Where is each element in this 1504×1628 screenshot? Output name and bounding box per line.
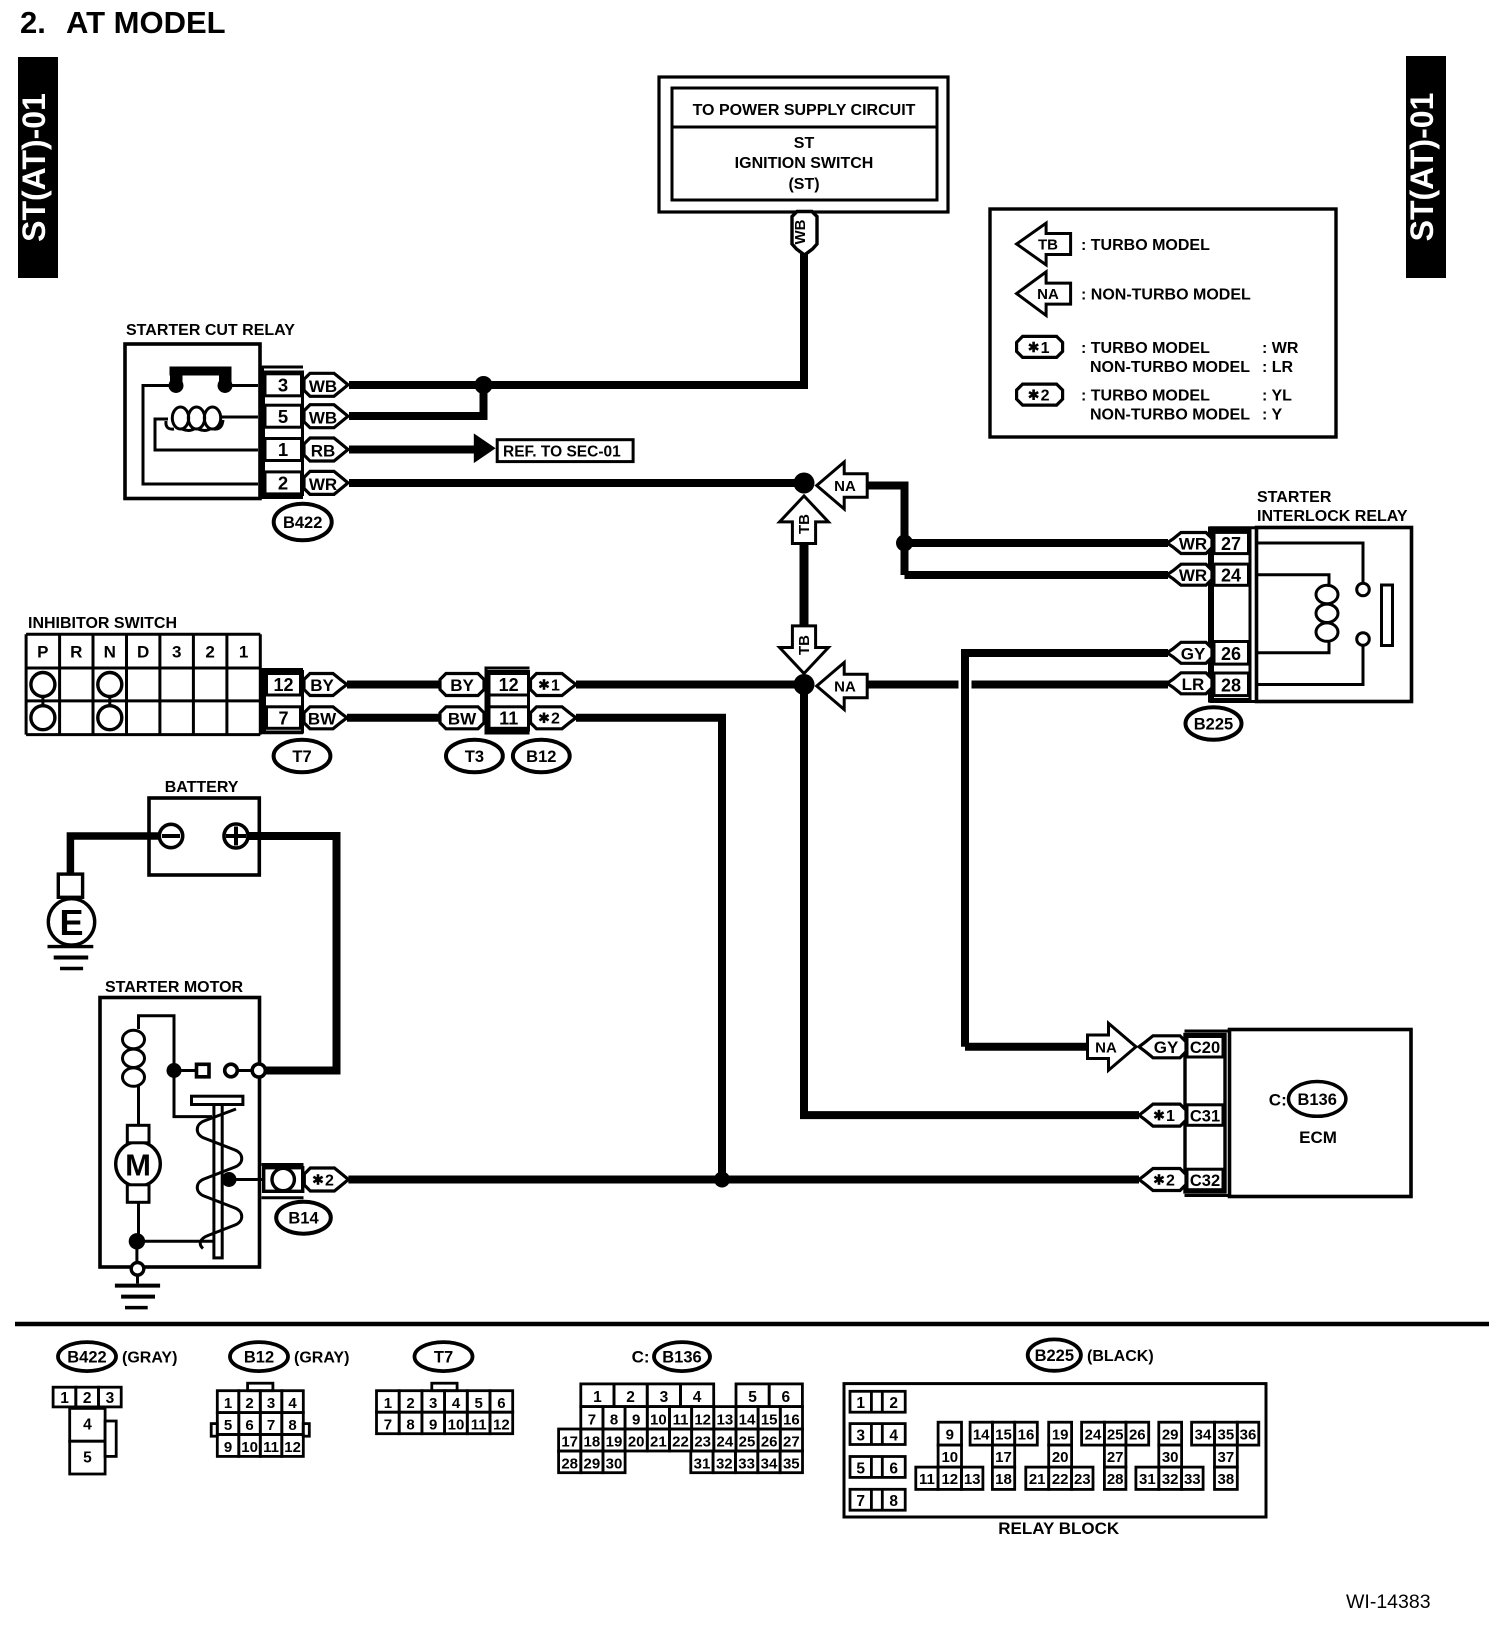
svg-text:28: 28 — [1221, 676, 1241, 696]
svg-text:2: 2 — [889, 1395, 898, 1412]
connector B12 (GRAY) label — [230, 1342, 349, 1371]
svg-text:29: 29 — [1162, 1427, 1179, 1444]
connector B12 pinout — [211, 1383, 309, 1456]
svg-text:B12: B12 — [526, 748, 556, 766]
svg-text:12: 12 — [284, 1439, 301, 1456]
svg-text:2: 2 — [278, 473, 288, 494]
svg-text:35: 35 — [783, 1455, 800, 1472]
label STARTER CUT RELAY — [126, 322, 295, 339]
svg-text:LR: LR — [1182, 675, 1205, 694]
svg-text:2: 2 — [245, 1395, 253, 1412]
svg-text:(GRAY): (GRAY) — [122, 1350, 177, 1367]
wire BY/*1 to junction B — [576, 681, 804, 689]
svg-text:B225: B225 — [1035, 1347, 1074, 1365]
terminal GY at C20 — [1139, 1036, 1186, 1058]
svg-text:23: 23 — [694, 1434, 711, 1451]
interlock pin column — [1213, 530, 1251, 700]
svg-text:26: 26 — [1129, 1427, 1146, 1444]
interlock pin bracket — [1210, 527, 1258, 703]
legend symbol *2 — [1017, 384, 1063, 405]
svg-text:GY: GY — [1154, 1038, 1179, 1057]
interlock contact points — [1357, 583, 1370, 645]
svg-text:T3: T3 — [465, 748, 484, 766]
svg-text:33: 33 — [1184, 1471, 1201, 1488]
starter motor ground symbol — [115, 1275, 160, 1308]
junction motor ground — [129, 1233, 145, 1249]
junction A (WR/TB/NA) — [794, 473, 815, 494]
svg-text:12: 12 — [273, 675, 293, 695]
terminal *1 at C31 — [1139, 1104, 1186, 1126]
svg-text:38: 38 — [1218, 1471, 1235, 1488]
svg-text:10: 10 — [650, 1411, 667, 1428]
svg-text:3: 3 — [172, 643, 181, 662]
svg-text:BY: BY — [450, 676, 474, 695]
svg-text:M: M — [125, 1147, 151, 1182]
svg-text:11: 11 — [263, 1439, 279, 1456]
relay block cavity group 34-38 — [1192, 1422, 1259, 1489]
svg-text:4: 4 — [693, 1389, 702, 1406]
svg-text:9: 9 — [429, 1417, 437, 1434]
svg-text:21: 21 — [650, 1434, 667, 1451]
svg-text:27: 27 — [1221, 534, 1241, 554]
svg-text:ST(AT)-01: ST(AT)-01 — [1404, 93, 1440, 242]
wire BW/*2 down to ECM row — [576, 718, 722, 1180]
svg-text:8: 8 — [288, 1417, 296, 1434]
ECM body — [1230, 1030, 1412, 1197]
svg-text:4: 4 — [889, 1427, 898, 1444]
svg-text:18: 18 — [584, 1434, 601, 1451]
B14 pin bracket — [262, 1165, 304, 1198]
terminal BY pin 12 — [304, 674, 347, 696]
wire BY inhibitor to T3 — [347, 681, 441, 689]
svg-text:STARTER CUT RELAY: STARTER CUT RELAY — [126, 322, 295, 339]
svg-text:5: 5 — [748, 1389, 757, 1406]
svg-text:23: 23 — [1074, 1471, 1091, 1488]
pin C20 of B136 — [1187, 1037, 1223, 1058]
wire from NA arrow A to interlock relay branch — [866, 486, 905, 576]
svg-text:B422: B422 — [283, 514, 322, 532]
svg-text:2.: 2. — [20, 5, 46, 40]
battery plus terminal — [224, 824, 248, 848]
svg-text:22: 22 — [672, 1434, 689, 1451]
inhibitor switch contact circles N — [98, 673, 122, 730]
svg-text:INHIBITOR SWITCH: INHIBITOR SWITCH — [28, 615, 177, 632]
svg-text:17: 17 — [995, 1449, 1012, 1466]
starter motor body — [100, 998, 260, 1268]
pin C32 of B136 — [1187, 1169, 1223, 1190]
svg-text:32: 32 — [716, 1455, 733, 1472]
svg-text:RB: RB — [311, 442, 336, 461]
svg-text:27: 27 — [1107, 1449, 1124, 1466]
arrow NA (non-turbo) pointing left at junction B — [817, 663, 868, 710]
wire NA-B to interlock pin 28 (LR) — [866, 681, 1168, 689]
label BATTERY — [165, 779, 239, 796]
connector B422 (GRAY) label — [58, 1342, 177, 1371]
svg-text:T7: T7 — [292, 748, 311, 766]
svg-text:26: 26 — [761, 1434, 778, 1451]
wire GY to ECM NA arrow — [965, 1043, 1088, 1051]
svg-text:14: 14 — [973, 1427, 990, 1444]
svg-text:BW: BW — [308, 709, 337, 728]
svg-text:1: 1 — [593, 1389, 602, 1406]
relay block paired cavities 1-8 — [850, 1391, 905, 1510]
svg-text:IGNITION SWITCH: IGNITION SWITCH — [735, 155, 874, 172]
svg-text:TB: TB — [1038, 237, 1058, 254]
svg-text:10: 10 — [941, 1449, 958, 1466]
starter motor ground stud — [131, 1263, 144, 1276]
svg-text:: TURBO MODEL: : TURBO MODEL — [1081, 237, 1210, 254]
pin 12 of T7 — [267, 674, 301, 696]
svg-text:3: 3 — [106, 1390, 115, 1407]
interlock relay body — [1257, 528, 1412, 702]
svg-text:TO POWER SUPPLY CIRCUIT: TO POWER SUPPLY CIRCUIT — [693, 102, 916, 119]
starter motor brush lower — [127, 1185, 149, 1203]
wire motor to ground — [137, 1202, 213, 1261]
svg-text:B136: B136 — [662, 1349, 701, 1367]
wire *2 from B14 to junction C — [348, 1176, 722, 1184]
starter motor field coil — [123, 1030, 145, 1125]
connector C: B136 label — [632, 1342, 710, 1371]
svg-text:28: 28 — [561, 1455, 578, 1472]
svg-text:6: 6 — [497, 1395, 505, 1412]
relay block cavity group 14-18 — [970, 1422, 1037, 1489]
legend text turbo model — [1081, 237, 1210, 254]
interlock coil — [1316, 585, 1338, 641]
svg-text:16: 16 — [783, 1411, 800, 1428]
svg-text:ECM: ECM — [1299, 1128, 1337, 1147]
wire RB to REF arrow — [349, 446, 476, 454]
svg-text:BATTERY: BATTERY — [165, 779, 239, 796]
svg-text:6: 6 — [781, 1389, 790, 1406]
wire WR to interlock pin 24 — [905, 571, 1169, 579]
junction WR branch to pin 27 — [896, 535, 913, 552]
arrow NA (non-turbo) pointing left at junction A — [817, 462, 868, 509]
svg-text:WB: WB — [309, 408, 337, 427]
pin 24 of B225 — [1214, 564, 1249, 586]
interlock armature bar — [1382, 585, 1393, 646]
svg-text:NON-TURBO MODEL: NON-TURBO MODEL — [1090, 359, 1250, 376]
svg-text:B422: B422 — [67, 1349, 106, 1367]
terminal BW pin 7 — [304, 707, 347, 729]
svg-text:15: 15 — [995, 1427, 1012, 1444]
ref arrow to SEC-01 — [474, 433, 496, 463]
starter motor contact points — [167, 1063, 253, 1078]
svg-text:3: 3 — [429, 1395, 437, 1412]
legend symbol *1 — [1017, 336, 1063, 357]
ground E circle — [48, 899, 94, 945]
svg-text:8: 8 — [610, 1411, 618, 1428]
svg-text:AT MODEL: AT MODEL — [66, 5, 226, 40]
svg-text:19: 19 — [606, 1434, 623, 1451]
svg-text:17: 17 — [561, 1434, 578, 1451]
svg-text:32: 32 — [1162, 1471, 1179, 1488]
svg-text:1: 1 — [60, 1390, 69, 1407]
svg-text:25: 25 — [739, 1434, 756, 1451]
svg-text:P: P — [37, 643, 48, 662]
connector B14 — [276, 1202, 331, 1234]
ref box REF. TO SEC-01 — [497, 440, 633, 462]
inhibitor switch position labels — [37, 643, 248, 662]
terminal WR pin 27 — [1167, 533, 1212, 554]
svg-text:5: 5 — [83, 1449, 92, 1466]
pin 28 of B225 — [1214, 673, 1249, 696]
svg-text:12: 12 — [499, 675, 519, 695]
pin 1 of B422 — [265, 439, 302, 461]
svg-text:WR: WR — [1179, 566, 1207, 585]
connector B225 — [1186, 707, 1242, 740]
starter motor plunger spring — [197, 1109, 242, 1249]
svg-text:5: 5 — [224, 1417, 232, 1434]
svg-text:WR: WR — [309, 475, 337, 494]
svg-text:C20: C20 — [1190, 1039, 1220, 1057]
svg-text:WR: WR — [1179, 535, 1207, 554]
svg-text:T7: T7 — [434, 1349, 453, 1367]
svg-text:E: E — [59, 902, 83, 943]
label RELAY BLOCK — [998, 1519, 1120, 1538]
svg-text:15: 15 — [761, 1411, 778, 1428]
svg-text:14: 14 — [739, 1411, 756, 1428]
svg-text:30: 30 — [606, 1455, 623, 1472]
terminal BW at T3 — [440, 707, 484, 729]
junction C (*2) — [714, 1172, 730, 1188]
svg-text:4: 4 — [83, 1417, 92, 1434]
left page banner ST(AT)-01 — [16, 57, 58, 278]
svg-text:B136: B136 — [1297, 1091, 1336, 1109]
svg-text:2: 2 — [1041, 388, 1050, 405]
terminal WR pin 24 — [1167, 564, 1212, 585]
svg-text:NA: NA — [834, 478, 856, 495]
svg-text:INTERLOCK RELAY: INTERLOCK RELAY — [1257, 508, 1408, 525]
battery body — [149, 798, 259, 875]
ECM pin bracket — [1185, 1031, 1230, 1196]
svg-text:2: 2 — [83, 1390, 92, 1407]
motor M — [116, 1142, 161, 1187]
terminal *2 at B12 — [531, 707, 577, 729]
svg-text:16: 16 — [1018, 1427, 1035, 1444]
ECM pin column — [1185, 1035, 1225, 1193]
svg-text:5: 5 — [475, 1395, 483, 1412]
svg-text:11: 11 — [499, 708, 518, 728]
svg-text:8: 8 — [889, 1493, 898, 1510]
svg-text:13: 13 — [964, 1471, 981, 1488]
svg-text:31: 31 — [694, 1455, 711, 1472]
document number WI-14383 — [1346, 1591, 1431, 1613]
svg-text:N: N — [104, 643, 116, 662]
svg-text:: WR: : WR — [1262, 340, 1299, 357]
svg-text:34: 34 — [1195, 1427, 1212, 1444]
starter motor brush upper — [127, 1125, 149, 1143]
junction B (BY/TB/NA) — [794, 674, 815, 695]
pin 27 of B225 — [1214, 532, 1249, 554]
svg-text:4: 4 — [452, 1395, 461, 1412]
svg-text:1: 1 — [551, 677, 560, 694]
svg-text:7: 7 — [588, 1411, 596, 1428]
svg-text:1: 1 — [1041, 340, 1050, 357]
T3/B12 pin bracket — [486, 667, 530, 735]
svg-text:BW: BW — [448, 709, 477, 728]
starter cut relay pin bracket — [260, 366, 303, 499]
T3/B12 pin column — [489, 672, 529, 731]
svg-text:BY: BY — [310, 676, 334, 695]
legend *1 text — [1081, 340, 1299, 376]
terminal WB (ignition switch feed) — [792, 212, 817, 256]
label STARTER MOTOR — [105, 979, 244, 996]
svg-text:R: R — [70, 643, 82, 662]
wire from junction B down to ECM *1 C31 — [804, 685, 1139, 1116]
ground E lines — [48, 947, 94, 969]
svg-text:18: 18 — [995, 1471, 1012, 1488]
svg-text:27: 27 — [783, 1434, 800, 1451]
terminal *1 at B12 — [531, 674, 577, 696]
relay block cavity group 24-28 — [1082, 1422, 1149, 1489]
svg-text:STARTER MOTOR: STARTER MOTOR — [105, 979, 244, 996]
svg-text:C:: C: — [1269, 1091, 1287, 1110]
svg-text:22: 22 — [1052, 1471, 1069, 1488]
svg-text:7: 7 — [384, 1417, 392, 1434]
label ECM — [1299, 1128, 1337, 1147]
svg-text:ST: ST — [794, 135, 815, 152]
svg-text:28: 28 — [1107, 1471, 1124, 1488]
connector B422 pinout — [53, 1387, 121, 1474]
svg-text:GY: GY — [1181, 644, 1206, 663]
terminal WB pin 5 — [304, 405, 348, 428]
connector T7 pinout — [377, 1383, 513, 1434]
pin 2 of B422 — [265, 472, 302, 494]
wire battery minus to ground E — [70, 836, 161, 873]
starter cut relay pin column — [264, 372, 303, 495]
svg-text:29: 29 — [584, 1455, 601, 1472]
svg-text:3: 3 — [660, 1389, 669, 1406]
svg-text:24: 24 — [717, 1434, 734, 1451]
svg-text:25: 25 — [1107, 1427, 1124, 1444]
relay block cavity group 29-33 — [1136, 1422, 1203, 1489]
relay block cavity group 19-23 — [1026, 1422, 1093, 1489]
wire WR from starter cut relay pin 2 to junction A — [349, 479, 804, 487]
pin 26 of B225 — [1214, 642, 1249, 665]
terminal GY pin 26 — [1167, 642, 1212, 663]
svg-text:NA: NA — [1037, 286, 1059, 303]
svg-text:24: 24 — [1221, 566, 1241, 586]
ground tab — [58, 874, 82, 897]
inhibitor switch contact circles P — [31, 673, 55, 730]
battery minus terminal — [159, 824, 182, 847]
inhibitor switch grid — [26, 634, 260, 734]
connector T7 label — [415, 1342, 473, 1371]
legend arrow TB — [1017, 223, 1071, 265]
label INHIBITOR SWITCH — [28, 615, 177, 632]
svg-text:2: 2 — [325, 1172, 334, 1189]
ECM connector label C: B136 — [1269, 1082, 1346, 1117]
pin 7 of T7 — [267, 707, 301, 729]
svg-text:3: 3 — [856, 1427, 865, 1444]
svg-text:WB: WB — [309, 377, 337, 396]
svg-text:26: 26 — [1221, 644, 1241, 664]
svg-text:C:: C: — [632, 1348, 650, 1367]
svg-text:C32: C32 — [1190, 1172, 1220, 1190]
wire WB branch to starter cut relay pin 5 — [349, 385, 484, 416]
svg-text:30: 30 — [1162, 1449, 1179, 1466]
svg-text:7: 7 — [267, 1417, 275, 1434]
svg-text:31: 31 — [1139, 1471, 1156, 1488]
legend text non-turbo model — [1081, 287, 1251, 304]
svg-text:5: 5 — [278, 406, 288, 427]
junction WB branch — [475, 376, 493, 394]
svg-text:1: 1 — [224, 1395, 232, 1412]
terminal LR pin 28 — [1167, 673, 1212, 694]
wire solenoid to B14 — [229, 1178, 262, 1181]
svg-text:21: 21 — [1029, 1471, 1046, 1488]
starter cut relay contact bridge — [169, 367, 233, 394]
svg-text:2: 2 — [626, 1389, 635, 1406]
inhibitor pin bracket — [260, 669, 303, 734]
B14 ring terminal — [264, 1168, 303, 1192]
svg-text:3: 3 — [278, 375, 288, 396]
svg-text:11: 11 — [471, 1417, 487, 1434]
svg-text:20: 20 — [628, 1434, 645, 1451]
svg-text:(ST): (ST) — [788, 176, 819, 193]
svg-text:2: 2 — [1166, 1172, 1175, 1189]
starter motor plunger — [192, 1096, 243, 1258]
connector T3 — [446, 740, 503, 772]
svg-text:2: 2 — [205, 643, 214, 662]
pin 3 of B422 — [265, 374, 302, 396]
svg-text:12: 12 — [941, 1471, 958, 1488]
svg-text:1: 1 — [278, 439, 288, 460]
svg-text:20: 20 — [1052, 1449, 1069, 1466]
svg-text:6: 6 — [245, 1417, 253, 1434]
terminal *2 at C32 — [1139, 1169, 1186, 1191]
legend arrow NA — [1017, 272, 1071, 316]
arrow NA (non-turbo) pointing right at ECM GY — [1088, 1023, 1137, 1070]
svg-text:1: 1 — [1166, 1108, 1175, 1125]
svg-text:B225: B225 — [1194, 716, 1233, 734]
arrow TB (turbo model) pointing down at junction B — [780, 626, 829, 674]
interlock contact wiring from pin 27 — [1257, 543, 1363, 582]
starter motor solenoid wiring — [139, 1016, 213, 1117]
svg-text:9: 9 — [224, 1439, 232, 1456]
wire WR to interlock pin 27 — [905, 539, 1169, 547]
svg-text:13: 13 — [717, 1411, 734, 1428]
svg-text:3: 3 — [267, 1395, 275, 1412]
svg-text:4: 4 — [288, 1395, 297, 1412]
svg-text:8: 8 — [406, 1417, 414, 1434]
wire GY vertical with crossover — [965, 653, 1168, 1047]
svg-text:1: 1 — [239, 643, 248, 662]
wire BW inhibitor to T3 — [347, 714, 441, 722]
relay block outline — [844, 1384, 1266, 1517]
svg-text:10: 10 — [448, 1417, 465, 1434]
svg-text:RELAY BLOCK: RELAY BLOCK — [998, 1519, 1120, 1538]
wire WB from ignition switch down and left to starter cut relay pin 3 — [349, 253, 804, 385]
connector B225 (BLACK) label — [1028, 1339, 1154, 1370]
connector B136 pinout — [559, 1384, 803, 1473]
bottom separator — [15, 1322, 1489, 1327]
svg-text:TB: TB — [796, 635, 813, 655]
svg-text:24: 24 — [1085, 1427, 1102, 1444]
svg-text:: YL: : YL — [1262, 388, 1292, 405]
svg-text:(GRAY): (GRAY) — [294, 1350, 349, 1367]
svg-text:B14: B14 — [288, 1210, 319, 1228]
svg-text:2: 2 — [406, 1395, 414, 1412]
svg-text:9: 9 — [946, 1427, 954, 1444]
svg-text:: TURBO MODEL: : TURBO MODEL — [1081, 388, 1210, 405]
junction solenoid contact to B14 — [222, 1172, 237, 1187]
svg-text:5: 5 — [856, 1460, 865, 1477]
svg-text:REF. TO SEC-01: REF. TO SEC-01 — [503, 444, 621, 461]
starter cut relay body — [125, 344, 260, 499]
interlock contact wiring from pin 28 — [1257, 647, 1363, 685]
svg-text:TB: TB — [796, 514, 813, 534]
